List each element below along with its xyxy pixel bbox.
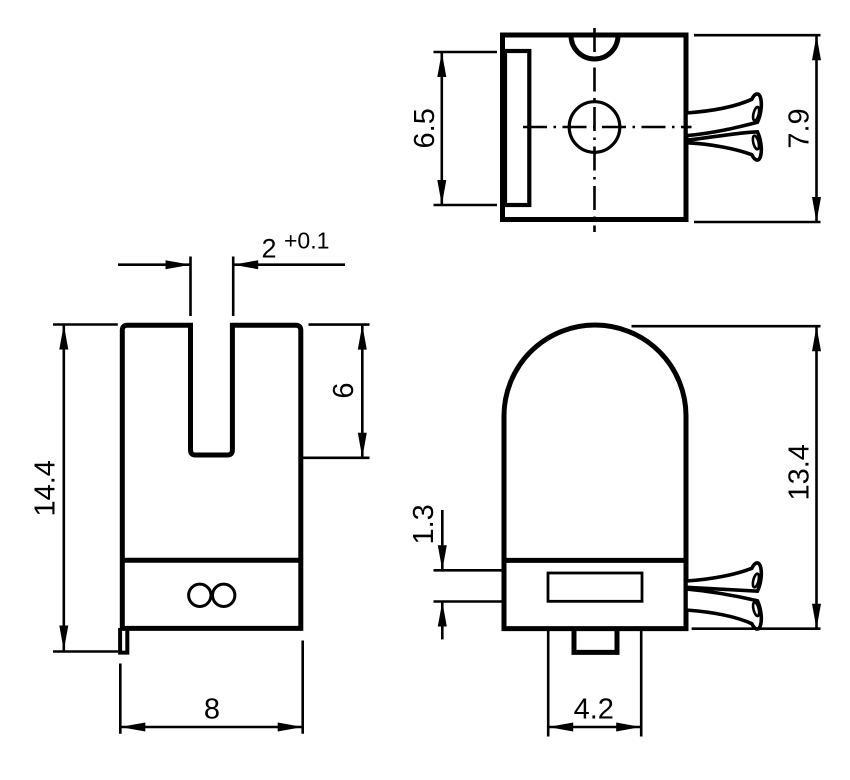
dimension 6 arrows — [358, 325, 367, 350]
dimension 2+0.1 arrows — [166, 260, 191, 269]
dimension 6.5 extension line bottom — [434, 204, 498, 207]
notch semicircle on top edge — [571, 36, 618, 60]
dimension 6.5 arrows — [437, 52, 446, 77]
dimension 6 extension lines — [309, 323, 370, 326]
dimension 14.4 arrows — [59, 325, 68, 350]
front view right circle — [213, 584, 235, 606]
dimension 8 extension lines — [119, 664, 122, 734]
dimension 7.9 dimension line — [815, 35, 818, 222]
center hole circle — [569, 102, 620, 153]
dimension 4.2 arrows — [548, 723, 573, 732]
dimension 13.4 arrows — [812, 326, 821, 351]
front view divider line — [122, 558, 300, 563]
side view bottom tab — [574, 629, 617, 653]
dimension 6.5 extension line top — [434, 51, 498, 54]
svg-text:1.3: 1.3 — [408, 504, 440, 544]
side view window rectangle — [548, 573, 642, 601]
side view upper wire (thin flaring lead) — [686, 563, 761, 591]
dimension 8 dimension line — [120, 726, 302, 729]
side view lower wire (fat lead) — [686, 589, 761, 629]
top view lower wire (thin flaring lead) — [686, 132, 761, 160]
dimension 1.3 arrows — [438, 545, 447, 570]
dimension 2+0.1 dimension line right part — [233, 263, 345, 266]
svg-text:6.5: 6.5 — [409, 108, 441, 148]
dimension 8 arrows — [120, 723, 145, 732]
top view upper wire (fat lead) — [686, 94, 761, 136]
dimension 4.2 dimension line — [548, 726, 641, 729]
dimension 7.9 extension line bottom — [694, 221, 821, 224]
top view body outline — [503, 35, 687, 220]
dimension 14.4 dimension line — [62, 325, 65, 651]
svg-text:13.4: 13.4 — [783, 444, 815, 500]
svg-text:+0.1: +0.1 — [284, 228, 329, 254]
dimension 2+0.1 extension lines — [189, 257, 192, 317]
svg-text:4.2: 4.2 — [574, 694, 614, 726]
svg-text:2: 2 — [262, 234, 277, 264]
horizontal center line — [523, 126, 693, 129]
dimension 13.4 extension lines — [632, 325, 821, 328]
horizontal center line tick past body edge — [686, 126, 692, 129]
svg-text:7.9: 7.9 — [783, 108, 815, 148]
vertical center line — [593, 28, 596, 232]
side view dome body outline — [504, 325, 686, 629]
svg-text:8: 8 — [204, 694, 220, 726]
svg-text:6: 6 — [328, 383, 360, 399]
dimension 6 dimension line — [361, 325, 364, 458]
dimension 7.9 arrows — [812, 35, 821, 60]
front view body outline with slot — [122, 325, 300, 628]
svg-text:14.4: 14.4 — [30, 460, 62, 516]
front view bottom tab — [120, 628, 127, 653]
side view divider line — [504, 558, 686, 563]
dimension 1.3 extension lines — [434, 569, 540, 572]
dimension 14.4 extension lines — [53, 323, 118, 326]
inner rectangle (left inset) — [505, 51, 529, 205]
dimension 7.9 extension line top — [694, 34, 821, 37]
dimension 6.5 dimension line — [440, 52, 443, 205]
front view left circle — [189, 584, 211, 606]
dimension 13.4 dimension line — [815, 326, 818, 629]
dimension 2+0.1 dimension line left part — [118, 263, 191, 266]
dimension 1.3 dimension line — [441, 510, 444, 570]
dimension 4.2 extension lines — [547, 610, 550, 737]
